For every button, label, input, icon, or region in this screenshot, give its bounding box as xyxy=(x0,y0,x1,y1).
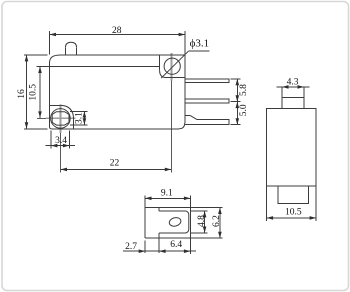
dimension 6.2 line xyxy=(219,208,221,239)
hole diameter leader underline xyxy=(188,50,209,52)
dimension 3.1 lines xyxy=(70,111,87,125)
bottom view lower step xyxy=(158,233,160,238)
dimension text 10.5 front xyxy=(29,84,39,101)
front view lid parting line xyxy=(37,66,160,68)
svg-text:6.2: 6.2 xyxy=(212,215,222,227)
dimension text 10.5 side xyxy=(285,208,302,218)
front view plunger button cap xyxy=(65,42,76,48)
svg-text:28: 28 xyxy=(112,26,122,36)
dimension 9.1 lines xyxy=(145,195,190,254)
bottom-left mounting boss corner arc xyxy=(60,105,74,119)
bottom-left octagonal hole xyxy=(52,112,69,125)
svg-text:3.4: 3.4 xyxy=(55,136,67,146)
front view body bottom edge xyxy=(52,128,179,130)
bottom view slot extension lines xyxy=(190,211,208,233)
side view body outline xyxy=(267,109,316,186)
dimension 16 lines xyxy=(24,55,48,129)
dimension 10.5 side lines xyxy=(267,186,316,221)
svg-text:2.7: 2.7 xyxy=(125,242,137,252)
bottom-left mounting hole outer circle xyxy=(51,109,71,129)
dimension 10.5 line (front) xyxy=(39,67,41,118)
front view body top edge xyxy=(61,54,185,56)
dimension text 6.4 xyxy=(170,240,182,250)
terminal 3 step diagonal xyxy=(191,116,198,120)
bottom view bottom edge with extension xyxy=(145,237,222,239)
front view body right edge xyxy=(184,55,186,123)
bottom view upper step xyxy=(158,208,160,211)
top-right mounting boss corner arc xyxy=(160,71,167,78)
dimension text 9.1 xyxy=(161,189,173,199)
arrowheads dimension 4.3 xyxy=(282,85,304,89)
bottom view slot bottom line xyxy=(159,232,185,234)
svg-text:4.3: 4.3 xyxy=(287,77,299,87)
dimension text 4.8 xyxy=(197,215,207,227)
arrowheads dimension 6.4 xyxy=(159,249,190,253)
arrowheads dimension 22 xyxy=(61,168,172,172)
svg-text:6.4: 6.4 xyxy=(170,240,182,250)
terminal 2 (middle) xyxy=(185,99,229,103)
arrowheads dimension 4.8 xyxy=(203,211,207,233)
bottom-left hole center line left stub xyxy=(37,117,46,119)
bottom-left hole horizontal center mark xyxy=(46,117,76,119)
arrowheads dimension 6.2 xyxy=(218,208,222,239)
dimension text 16 xyxy=(17,89,27,99)
front view body top-left corner xyxy=(50,55,62,63)
dimension text 3.4 xyxy=(55,136,67,146)
arrowheads dimension 10.5 side xyxy=(267,216,316,220)
arrowheads dimensions 5.8 and 5.0 xyxy=(236,79,240,125)
dimension text 3.1 vertical xyxy=(75,112,85,124)
dimension text 4.3 xyxy=(287,77,299,87)
dimension text 5.8 xyxy=(239,84,249,96)
bottom-left hole center extension line xyxy=(59,133,61,173)
terminal 1 (top) xyxy=(185,79,229,83)
dimension text 2.7 xyxy=(125,242,137,252)
svg-text:3.1: 3.1 xyxy=(75,112,85,124)
svg-text:5.8: 5.8 xyxy=(239,84,249,96)
bottom-left hole vertical center mark xyxy=(59,104,61,133)
dimension 5.8 and 5.0 lines xyxy=(231,79,241,125)
svg-text:ϕ3.1: ϕ3.1 xyxy=(190,38,210,50)
svg-text:9.1: 9.1 xyxy=(161,189,173,199)
front view body bottom-right corner xyxy=(179,123,185,129)
top-right mounting boss bottom edge xyxy=(167,77,185,79)
side view plunger button sides xyxy=(282,87,304,108)
svg-text:22: 22 xyxy=(110,159,120,169)
side view bottom foot xyxy=(278,186,309,204)
svg-text:16: 16 xyxy=(17,89,27,99)
dimension text 28 xyxy=(112,26,122,36)
top-right mounting boss left edge xyxy=(159,55,161,71)
bottom-left mounting boss right edge xyxy=(73,120,75,129)
front view plunger button sides xyxy=(65,48,76,55)
svg-text:5.0: 5.0 xyxy=(239,104,249,116)
dimension 2.7 and 6.4 lines xyxy=(123,239,196,254)
arrowheads dimension 10.5 front xyxy=(38,67,42,118)
arrowheads dimension 3.4 xyxy=(51,144,69,148)
dimension text 6.2 xyxy=(212,215,222,227)
terminal 3 straight edges xyxy=(185,116,229,125)
dimension 3.4 lines xyxy=(46,130,76,148)
svg-text:4.8: 4.8 xyxy=(197,215,207,227)
arrowheads dimension 16 xyxy=(25,55,29,129)
bottom view slot rounded end xyxy=(185,211,189,233)
dimension 4.8 line xyxy=(204,211,206,233)
arrowheads dimension 2.7 xyxy=(139,249,145,253)
dimension 22 line xyxy=(61,168,172,170)
arrowheads dimension 3.1 xyxy=(83,111,87,125)
arrowheads dimension 28 xyxy=(50,33,185,37)
bottom-left mounting boss top edge xyxy=(50,104,60,106)
bottom view slot top line xyxy=(159,210,185,212)
dimension 4.3 line xyxy=(277,86,310,88)
bottom view oval hole xyxy=(168,216,182,227)
dimension text phi 3.1 xyxy=(190,38,210,50)
front view body left edge xyxy=(49,63,51,127)
svg-text:10.5: 10.5 xyxy=(29,84,39,101)
hole diameter leader diagonal xyxy=(161,51,188,78)
top-right hole vertical center mark xyxy=(171,53,173,81)
dimension text 5.0 xyxy=(239,104,249,116)
top-right hole center extension line xyxy=(170,81,172,173)
arrowheads dimension 9.1 xyxy=(145,197,190,201)
top-right mounting hole circle xyxy=(164,58,180,74)
bottom view left edge xyxy=(144,208,146,239)
dimension 28 lines xyxy=(50,31,185,54)
front view body bottom-left corner xyxy=(50,127,52,129)
dimension text 22 xyxy=(110,159,120,169)
svg-text:10.5: 10.5 xyxy=(285,208,302,218)
side view plunger step line xyxy=(282,97,304,99)
bottom view top edge with extension xyxy=(145,207,222,209)
